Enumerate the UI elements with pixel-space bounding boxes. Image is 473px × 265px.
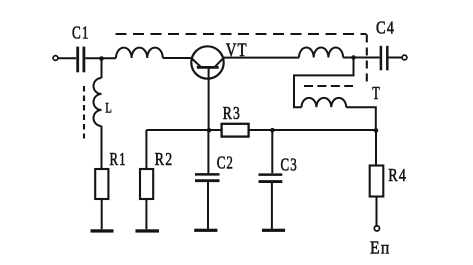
svg-text:C4: C4 — [376, 17, 395, 38]
svg-text:VT: VT — [226, 39, 248, 60]
svg-text:R2: R2 — [155, 150, 173, 169]
svg-text:C1: C1 — [72, 24, 90, 43]
svg-text:T: T — [372, 84, 380, 104]
svg-text:C3: C3 — [281, 156, 298, 176]
svg-text:Еп: Еп — [370, 237, 391, 257]
svg-text:R1: R1 — [110, 150, 127, 170]
svg-text:C2: C2 — [217, 153, 234, 173]
svg-text:R3: R3 — [223, 104, 241, 123]
svg-text:L: L — [105, 99, 113, 116]
svg-text:R4: R4 — [388, 167, 407, 186]
